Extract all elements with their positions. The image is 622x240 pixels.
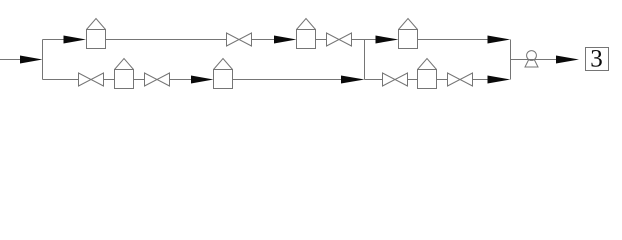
valve V1 top rail [227,33,252,46]
wire S5 to A7 [233,79,343,81]
arrow A8 bottom rail to merge [488,76,511,84]
station S6 house bottom rail stage 2 [418,59,437,89]
valve V4 bottom rail [145,73,170,86]
operator P1 person icon [525,51,538,67]
wire outlet J3 to operator [511,59,557,61]
wire V4 to A6 [170,79,193,81]
arrow A7 bottom rail to J2 [341,76,365,84]
wire V1 to A3 [252,39,275,41]
station S5 house bottom rail [214,59,233,89]
wire S4 to V4 [134,79,145,81]
node sink 3 box [586,46,609,73]
valve V2 top rail [327,33,352,46]
arrow A2 top rail [64,36,87,44]
wire S6 to V6 [437,79,448,81]
node J3 merge junction [510,40,512,80]
wire source inlet [0,59,21,61]
wire top rail to A2 [43,39,65,41]
wire V5 to S6 [408,79,418,81]
wire V3 to S4 [104,79,115,81]
wire V6 to A8 [473,79,489,81]
node J2 mid junction [364,40,366,80]
arrow A5 top rail to merge [488,36,511,44]
wire S2 to V2 [316,39,327,41]
station S2 house top rail [297,19,316,49]
arrow A4 top rail stage 2 [376,36,399,44]
svg-text:3: 3 [590,46,603,73]
valve V3 bottom rail [79,73,104,86]
station S4 house bottom rail [115,59,134,89]
valve V5 bottom rail stage 2 [383,73,408,86]
arrow A6 bottom rail [191,76,214,84]
wire bottom rail to V3 [43,79,79,81]
arrow A3 top rail [274,36,297,44]
wire S1 to V1 [106,39,227,41]
arrow A1 inlet [20,56,43,64]
wire V2 through J2 to A4 [352,39,377,41]
station S3 house top rail stage 2 [399,19,418,49]
wire J2 to V5 [365,79,383,81]
node J1 split junction [42,40,44,80]
wire S3 to A5 [418,39,489,41]
arrow A9 to sink [556,56,579,64]
station S1 house top rail [87,19,106,49]
valve V6 bottom rail stage 2 [448,73,473,86]
